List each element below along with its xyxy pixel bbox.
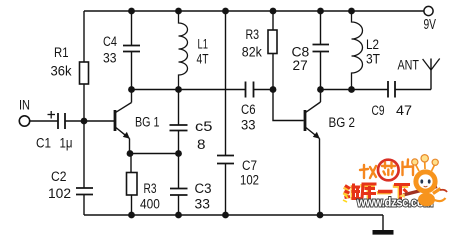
transistor BG1 emitter arrow [123, 132, 130, 139]
capacitor C2 plates [76, 188, 93, 195]
svg-text:C7: C7 [242, 158, 257, 173]
wire R3-400 bottom [131, 195, 133, 215]
svg-text:C3: C3 [195, 181, 212, 196]
mascot brush tip right [440, 190, 447, 192]
watermark yi character [378, 190, 393, 194]
capacitor C8 plates [313, 45, 330, 52]
capacitor C6 plates [246, 82, 254, 98]
wire C7 decoupling column from top rail [225, 11, 227, 156]
svg-text:L1: L1 [198, 37, 209, 52]
wire C6 to BG2 base node [254, 89, 274, 91]
capacitor C7 plates [217, 156, 234, 164]
svg-text:9V: 9V [424, 16, 437, 33]
svg-text:82k: 82k [242, 45, 262, 60]
mascot antenna balls [412, 155, 439, 166]
wire base node down to C2 [83, 121, 85, 188]
svg-text:C6: C6 [241, 102, 256, 117]
wire top supply rail [84, 10, 424, 12]
watermark xia character [394, 185, 410, 200]
wire C4 top [131, 11, 133, 46]
watermark xin character [382, 163, 395, 176]
wire output rail to C9 [321, 89, 388, 91]
wire BG2 base L [273, 90, 304, 121]
wire mid rail collector node to C6 [132, 89, 246, 91]
terminal 9V circle [424, 6, 433, 15]
svg-text:BG 1: BG 1 [135, 115, 160, 130]
mascot tail [435, 198, 446, 201]
wire BG2 emitter down to rail [319, 139, 321, 216]
mascot mouth [424, 185, 428, 188]
wire C5 to emitter node [178, 131, 180, 154]
wire C8 top [320, 11, 322, 45]
resistor R3 400 [127, 173, 138, 196]
svg-text:27: 27 [293, 58, 308, 73]
wire input terminal to C1 [30, 120, 58, 122]
watermark zhao character [360, 165, 376, 178]
mascot arm [433, 189, 441, 194]
wire left drop from rail to R1 [83, 11, 85, 62]
capacitor C5 plates [170, 125, 188, 131]
wire C4 bottom to collector node [131, 52, 133, 90]
svg-text:36k: 36k [51, 64, 72, 79]
svg-text:C9: C9 [372, 103, 385, 118]
junction dots mid rail [128, 86, 355, 93]
mascot antenna stalks [415, 161, 435, 171]
svg-text:400: 400 [140, 197, 160, 212]
transistor BG2 [305, 90, 321, 139]
wire bottom ground rail [84, 214, 383, 216]
terminal IN circle [19, 116, 29, 126]
inductor L2 3T coil [352, 11, 363, 90]
wire emitter node down to C3 [178, 154, 180, 189]
svg-text:8: 8 [197, 137, 206, 152]
svg-text:c5: c5 [195, 119, 213, 134]
mascot pen tip [399, 193, 406, 198]
transistor BG2 emitter arrow [313, 132, 320, 139]
svg-text:R3: R3 [246, 27, 260, 42]
wire emitter node rail [130, 153, 179, 155]
capacitor C4 plates [123, 46, 140, 52]
wire C1 to base node [66, 120, 85, 122]
svg-text:R1: R1 [54, 45, 69, 60]
wire L1 bottom node to C5 [178, 90, 180, 126]
wire R3-400 top [130, 154, 132, 173]
watermark wei character [345, 184, 361, 199]
resistor R1 36k [80, 62, 89, 84]
svg-text:C2: C2 [51, 169, 67, 184]
transistor BG1 [115, 90, 132, 154]
resistor R3 82k [268, 30, 277, 54]
ground symbol [373, 230, 394, 235]
wire C8 bottom to collector node [320, 52, 322, 90]
watermark magnifier circle [378, 160, 399, 181]
svg-text:R3: R3 [144, 181, 157, 196]
junction dots bottom rail [128, 212, 323, 219]
wire R3-82k bottom to base node [272, 54, 274, 90]
svg-text:BG 2: BG 2 [329, 115, 356, 130]
svg-text:4T: 4T [197, 52, 209, 67]
svg-text:C1: C1 [36, 136, 51, 151]
junction dot input node [81, 118, 88, 125]
wire R3-82k top [272, 11, 274, 30]
mascot head ring [416, 172, 435, 191]
svg-text:47: 47 [396, 103, 412, 118]
svg-text:C4: C4 [103, 34, 117, 49]
inductor L1 4T coil [179, 11, 188, 90]
capacitor C1 polarity plus [48, 111, 56, 119]
antenna ANT symbol [423, 59, 440, 71]
svg-text:102: 102 [48, 186, 71, 201]
junction dots top rail [128, 8, 355, 15]
svg-text:1μ: 1μ [60, 136, 73, 151]
watermark slogan halo [343, 185, 408, 200]
wire R1 bottom to input node [83, 84, 85, 121]
capacitor C9 plates [388, 81, 395, 98]
svg-text:33: 33 [195, 197, 210, 212]
svg-text:L2: L2 [366, 37, 379, 52]
junction dots emitter rail [127, 150, 182, 157]
wire antenna stem [430, 59, 432, 90]
wire C3 to bottom rail [178, 195, 180, 215]
svg-text:102: 102 [240, 173, 259, 188]
mascot eyes [420, 179, 430, 183]
wire C9 to antenna [396, 89, 432, 91]
mascot body [418, 193, 435, 207]
svg-text:33: 33 [103, 51, 117, 66]
svg-text:33: 33 [241, 118, 256, 133]
watermark ku character [362, 184, 377, 199]
watermark sparkles [343, 194, 348, 202]
wire base node to BG1 base [84, 120, 114, 122]
wire ground stem [382, 215, 384, 231]
capacitor C3 plates [170, 189, 188, 196]
mascot pen [403, 187, 437, 196]
svg-text:3T: 3T [366, 52, 380, 67]
svg-text:IN: IN [19, 98, 30, 113]
watermark pian character [403, 160, 414, 176]
svg-text:ANT: ANT [398, 58, 420, 73]
wire C2 to bottom rail [83, 195, 85, 216]
wire C7 to bottom rail [225, 164, 227, 216]
capacitor C1 plates [58, 113, 65, 129]
